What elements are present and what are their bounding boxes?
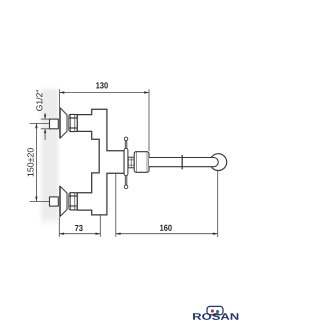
label 130 [96, 82, 108, 88]
dimension 130 [60, 89, 150, 151]
faucet body outline [77, 109, 124, 215]
logo icon [207, 306, 223, 314]
wire: centerline extension bottom inlet [30, 200, 50, 202]
handle spindle rod [125, 140, 127, 186]
bottom inlet nut [69, 193, 77, 210]
bottom inlet pipe [50, 197, 59, 206]
label 160 [160, 225, 172, 231]
top inlet escutcheon cone [60, 108, 67, 138]
spout pipe [149, 158, 218, 167]
top inlet nut [69, 114, 77, 131]
bottom inlet escutcheon cone [60, 186, 67, 216]
cartridge neck [128, 157, 134, 168]
dimension 160 [116, 171, 218, 237]
wall (shaded band) [0, 0, 1, 1]
dimension 73 [59, 216, 100, 237]
logo text ROSAN [193, 313, 238, 320]
dimension 150±20 [35, 123, 37, 201]
top inlet pipe G1/2 [50, 119, 59, 129]
wire: centerline extension top inlet [30, 122, 50, 124]
control knob [134, 152, 149, 173]
dimension G1/2" [41, 113, 50, 140]
label G1/2" [36, 90, 42, 111]
label 150±20 [27, 148, 33, 176]
handle bottom ball [124, 185, 128, 189]
spout end outer ring [210, 154, 227, 171]
handle plate [124, 148, 128, 175]
label 73 [75, 225, 83, 231]
handle top ball [124, 137, 128, 141]
spout joint tick [181, 155, 183, 169]
